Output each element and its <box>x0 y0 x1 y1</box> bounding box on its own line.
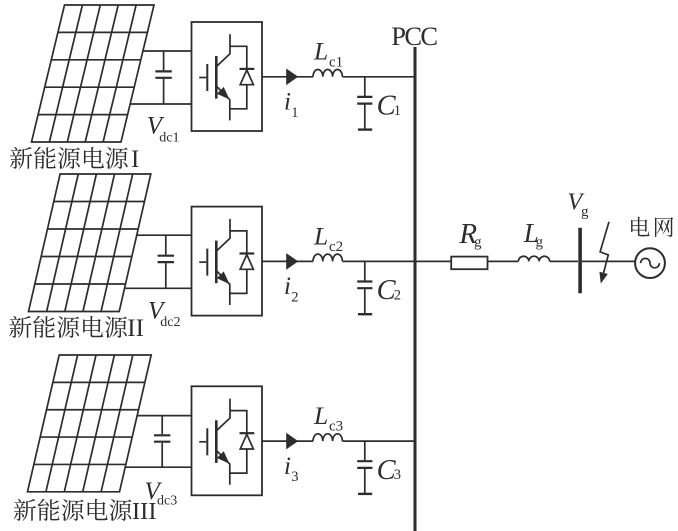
wire PV1 to converter (top) <box>143 50 192 52</box>
svg-text:L: L <box>313 401 328 430</box>
solar panel PV2 <box>28 174 150 312</box>
wire PCC to Rg <box>416 260 451 262</box>
svg-text:III: III <box>132 498 156 525</box>
inductor Lg coil <box>518 256 549 261</box>
wire Lg to Vg bar <box>550 260 578 262</box>
svg-text:PCC: PCC <box>391 21 437 51</box>
svg-text:dc3: dc3 <box>157 494 177 509</box>
Vg bus bar <box>578 228 582 293</box>
resistor Rg <box>451 257 487 270</box>
svg-text:L: L <box>313 37 328 66</box>
wire PV2 to converter (bottom) <box>125 287 192 289</box>
wire PV1 to converter (bottom) <box>130 103 191 105</box>
label 新能源电源I <box>10 147 32 169</box>
svg-text:g: g <box>536 234 544 250</box>
svg-text:c1: c1 <box>329 54 343 70</box>
wire Rg to Lg <box>488 260 518 262</box>
svg-text:i: i <box>284 453 291 480</box>
PCC bus <box>414 47 417 531</box>
wire PV2 to converter (top) <box>137 234 192 236</box>
solar panel PV1 <box>32 5 155 142</box>
svg-text:I: I <box>131 146 139 173</box>
wire Vg bar to grid source <box>582 260 635 262</box>
svg-text:3: 3 <box>291 469 298 485</box>
svg-text:dc2: dc2 <box>160 315 180 330</box>
wire PV3 to converter (top) <box>137 415 191 417</box>
svg-text:L: L <box>313 221 328 250</box>
svg-text:dc1: dc1 <box>159 130 179 145</box>
label 电网 <box>631 217 649 237</box>
solar panel PV3 <box>28 355 152 492</box>
svg-text:II: II <box>127 315 144 342</box>
svg-text:1: 1 <box>394 103 401 119</box>
svg-text:i: i <box>284 89 291 116</box>
capacitor Vdc2 <box>165 235 167 288</box>
converter unit 2: box, IGBT Q2, diode D2, coil Lc2, capacitor C2 <box>192 207 416 316</box>
wire PV3 to converter (bottom) <box>125 466 191 468</box>
svg-text:c3: c3 <box>329 419 343 435</box>
converter unit 3: box, IGBT Q3, diode D3, coil Lc3, capacitor C3 <box>192 386 416 495</box>
svg-text:2: 2 <box>394 287 401 303</box>
svg-text:1: 1 <box>291 105 298 121</box>
converter unit 1: box, IGBT Q1, diode D1, coil Lc1, capacitor C1 <box>192 22 416 131</box>
label 新能源电源II <box>9 316 31 338</box>
svg-text:i: i <box>284 273 291 300</box>
svg-text:2: 2 <box>291 289 298 305</box>
capacitor Vdc1 <box>163 51 165 104</box>
label 新能源电源III <box>14 499 36 521</box>
AC grid source <box>635 248 665 278</box>
lightning fault arrow <box>600 222 609 277</box>
capacitor Vdc3 <box>161 416 163 468</box>
svg-text:g: g <box>581 204 589 220</box>
svg-text:c2: c2 <box>329 239 343 255</box>
svg-text:3: 3 <box>394 467 401 483</box>
svg-text:g: g <box>474 235 482 251</box>
